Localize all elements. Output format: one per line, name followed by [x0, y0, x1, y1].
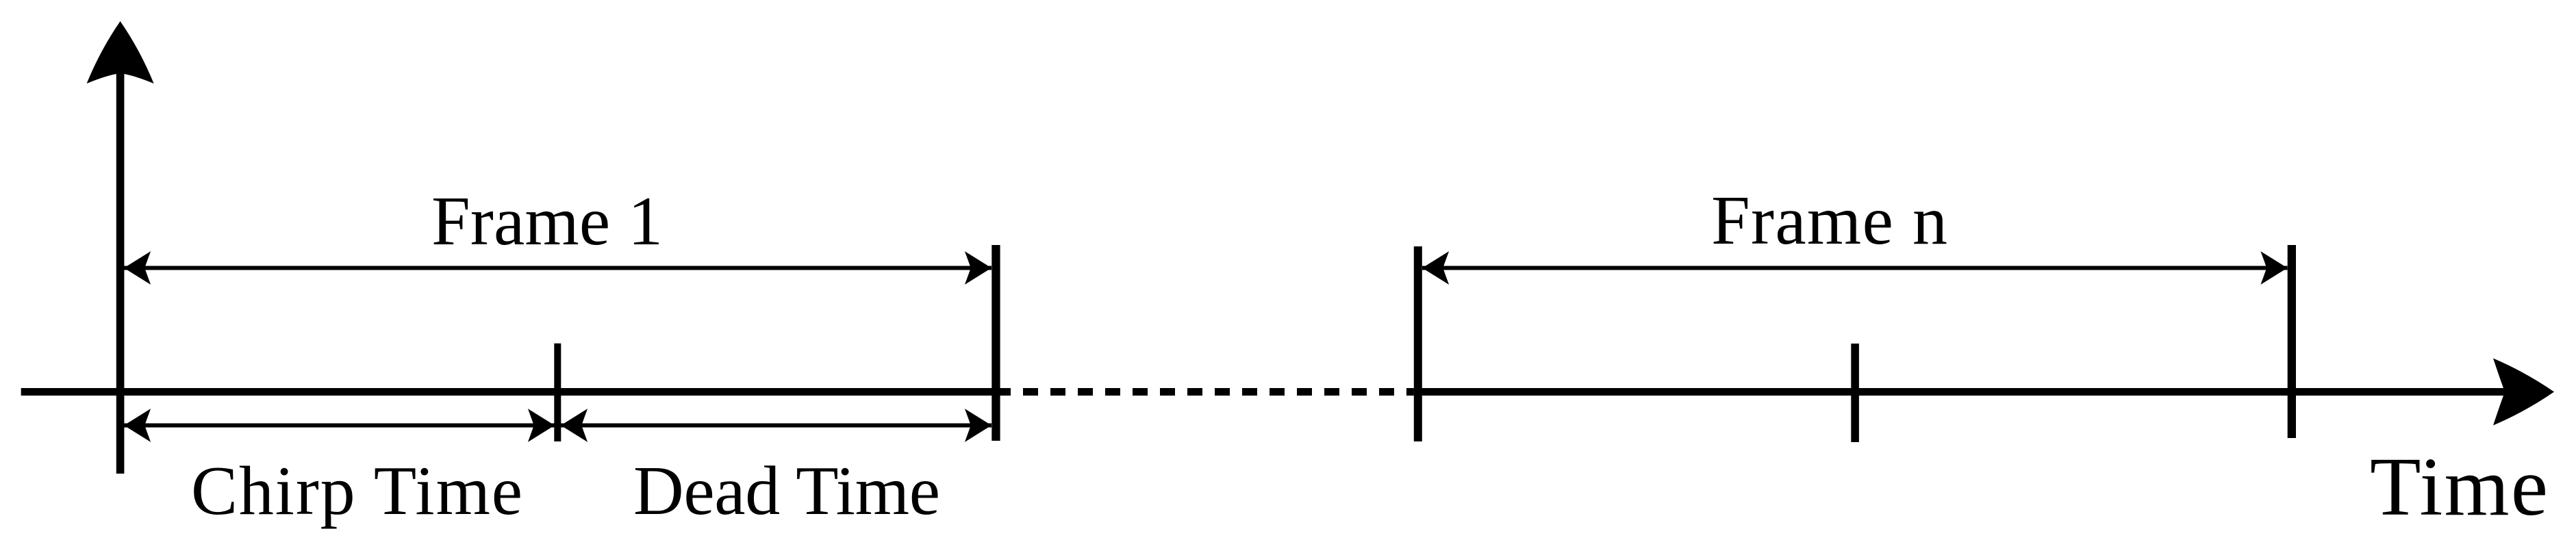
frame n dimension arrow right head [2260, 251, 2287, 285]
x-axis dashed segment [996, 388, 1414, 396]
dead time arrow right head [965, 409, 992, 442]
svg-text:Frame 1: Frame 1 [431, 183, 663, 260]
tick D (mid frame n) [1851, 344, 1859, 442]
y-axis arrowhead [87, 21, 154, 83]
dead time arrow left head [561, 409, 588, 442]
frame n dimension arrow left head [1422, 251, 1449, 285]
x-axis arrowhead [2493, 359, 2554, 426]
svg-text:Dead Time: Dead Time [633, 452, 940, 530]
frame 1 dimension arrow right head [965, 251, 992, 285]
x-axis solid segment right [1414, 388, 2506, 396]
frame 1 dimension arrow left head [124, 251, 151, 285]
svg-text:Frame n: Frame n [1711, 182, 1947, 259]
x-axis solid segment left [21, 388, 996, 396]
chirp time dimension arrow shaft [124, 424, 555, 428]
tick A (chirp/dead boundary) [554, 344, 561, 441]
frame 1 dimension arrow shaft [124, 266, 992, 270]
tick C (start of frame n) [1414, 246, 1422, 441]
y-axis shaft [116, 41, 125, 474]
svg-text:Chirp Time: Chirp Time [191, 452, 522, 530]
tick B (end of frame 1) [992, 245, 1000, 441]
frame n dimension arrow shaft [1422, 266, 2288, 270]
chirp time arrow right head [528, 409, 555, 442]
svg-text:Time: Time [2370, 441, 2548, 533]
tick E (end of frame n) [2288, 245, 2296, 438]
chirp time arrow left head [124, 409, 151, 442]
dead time dimension arrow shaft [561, 424, 992, 428]
